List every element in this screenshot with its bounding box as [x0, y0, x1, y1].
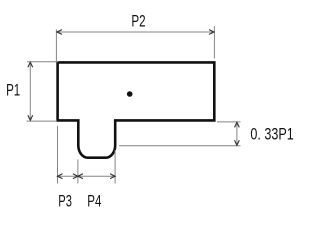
P1 extension line top [27, 61, 59, 63]
P2 arrowhead right [209, 30, 214, 35]
svg-text:P2: P2 [131, 12, 145, 31]
P1 dimension line [29, 62, 31, 120]
P4 arrowhead right [110, 174, 115, 179]
P4 arrowhead left at middle [78, 174, 83, 179]
svg-text:P4: P4 [87, 191, 101, 210]
P2 extension line right [213, 26, 215, 59]
P1 arrowhead bottom [28, 115, 33, 120]
P3 extension line left [57, 126, 59, 184]
center dot [127, 91, 133, 97]
P3 arrowhead left [58, 174, 63, 179]
part outline [58, 62, 215, 157]
P2 extension line left [55, 30, 57, 62]
svg-text:P3: P3 [58, 191, 72, 210]
P1 arrowhead top [28, 62, 33, 67]
P2 dimension line [57, 31, 214, 33]
0.33P1 extension line top [217, 121, 241, 123]
P2 arrowhead left [57, 30, 62, 35]
0.33P1 dimension line [236, 122, 238, 145]
P3/P4 shared extension line [77, 160, 79, 184]
svg-text:P1: P1 [6, 80, 20, 99]
P3 P4 dimension line [58, 175, 116, 177]
svg-text:0. 33P1: 0. 33P1 [250, 125, 293, 144]
P1 extension line bottom [27, 120, 58, 122]
0.33P1 arrowhead bottom [235, 140, 240, 145]
0.33P1 arrowhead top [235, 122, 240, 127]
0.33P1 extension line bottom [119, 145, 241, 147]
P3 arrowhead right at middle [73, 174, 78, 179]
P4 extension line right [114, 150, 116, 184]
